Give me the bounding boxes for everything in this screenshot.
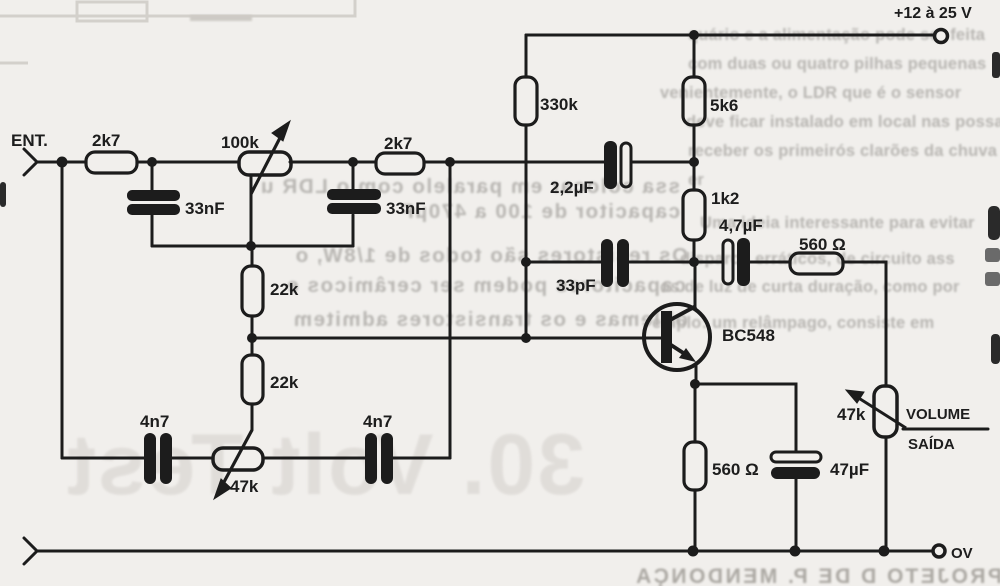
node base bus mid [521,333,531,343]
svg-text:+12 à 25 V: +12 à 25 V [894,5,972,22]
scan edge blobs [0,52,1000,364]
wire 33pF branch left [526,261,601,264]
node ground 47uF [790,546,801,557]
wire node to R 2k7 #1 [62,161,86,164]
svg-text:BC548: BC548 [722,326,775,345]
wire cap 4n7 #2 to x450 riser [392,457,450,460]
wire R 2k7 #1 to pot 100k [137,161,239,164]
node 33nF #2 tap [348,157,358,167]
wire input to node [37,161,86,164]
capacitor C4 33pF plates [601,239,629,287]
wire cap 4n7 #1 to pot 47k [172,457,213,460]
show-through bottom mirrored credit [634,565,1000,586]
wire collector node to R 1k2 [693,162,696,190]
wire base bus horizontal [252,337,661,340]
svg-text:PROJETO D DE P. MENDONÇA: PROJETO D DE P. MENDONÇA [634,565,1000,586]
resistor R6 22k [242,266,263,316]
wire treble bus y246 [152,245,353,248]
svg-text:47k: 47k [230,477,259,496]
svg-text:4n7: 4n7 [140,412,169,431]
wire pot 100k to R 2k7 #2 [290,161,376,164]
wire 33nF #2 top lead [352,162,355,190]
svg-text:47µF: 47µF [830,460,869,479]
terminal +V [935,30,948,43]
capacitor C6 4n7 plates [144,433,172,484]
svg-text:deve ficar instalado em local: deve ficar instalado em local nas possa [686,113,1000,131]
node collector top [689,157,699,167]
wire cap 4,7uF to R 560 horizontal [749,261,790,264]
node ground volume [879,546,890,557]
wire R 560 to volume riser [843,262,886,386]
show-through text left column [259,175,688,331]
faint smudge near top-left box [190,15,252,21]
wire R 330k top lead [525,35,528,77]
wire cap 47uF to ground rail [795,479,798,551]
svg-text:100k: 100k [221,133,259,152]
svg-text:560 Ω: 560 Ω [799,235,846,254]
potentiometer 47k bass arrow [214,430,252,499]
svg-text:560 Ω: 560 Ω [712,460,759,479]
svg-text:4n7: 4n7 [363,412,392,431]
node input junction [57,157,68,168]
capacitor C2 33nF plates [327,189,381,214]
wire 33nF #1 top lead [151,162,154,190]
potentiometer 47k volume body [874,386,897,437]
svg-text:5k6: 5k6 [710,96,738,115]
wire right vertical x450 [449,162,452,458]
wire base bus to R 22k #2 [251,338,254,355]
wire ground rail [37,550,933,553]
wire node y262 to cap 4,7uF [694,261,723,264]
capacitor C3 2,2uF electrolytic [604,141,631,189]
svg-text:2,2µF: 2,2µF [550,178,594,197]
wire R 1k2 to node y262 [693,240,696,262]
resistor R5 1k2 [683,190,705,240]
svg-text:oblemas e os transistores admi: oblemas e os transistores admitem [292,308,688,331]
svg-text:OV: OV [951,545,973,562]
show-through watermark headline (mirrored) [65,417,585,513]
wire R 330k bottom to base bus [525,125,528,338]
wire R 5k6 top lead [693,35,696,77]
svg-text:capacitor de 100 a 470µF: capacitor de 100 a 470µF [400,200,680,223]
svg-text:4,7µF: 4,7µF [719,216,763,235]
wire output line SAIDA [903,428,988,431]
node 33nF #1 tap [147,157,157,167]
svg-text:er: er [688,171,704,189]
node emitter [690,379,700,389]
node ground emitter resistor [688,546,699,557]
resistor R2 2k7 [376,153,424,174]
node right riser tap [445,157,455,167]
node supply 5k6 [689,30,699,40]
resistor R4 5k6 [683,77,705,125]
wire R 560 vertical to ground rail [694,490,697,551]
resistor R1 2k7 [86,152,137,173]
wire node y262 to transistor collector [694,262,697,309]
wire bass row left [62,457,144,460]
svg-text:33pF: 33pF [556,276,596,295]
wire R 2k7 #2 to cap 2,2uF [424,161,605,164]
potentiometer 100k body [239,152,291,175]
wire R 22k #2 to pot 47k wiper [251,404,254,430]
wire emitter node to cap 47uF [695,384,796,452]
capacitor C1 33nF plates [127,190,180,215]
svg-text:330k: 330k [540,95,578,114]
wire 33nF #2 bottom lead [352,215,355,246]
svg-text:VOLUME: VOLUME [906,406,970,423]
svg-text:22k: 22k [270,280,299,299]
input chevron ENT [24,149,37,175]
potentiometer 100k arrow [251,121,290,194]
svg-text:ENT.: ENT. [11,131,48,150]
capacitor C5 4,7uF electrolytic [723,238,750,286]
resistor R3 330k [515,77,537,125]
wire R 22k #1 to base bus [251,316,254,338]
svg-text:33nF: 33nF [386,199,426,218]
wire pot 100k wiper drop [250,177,253,246]
resistor R9 560 ohm vertical [684,442,706,490]
svg-text:33nF: 33nF [185,199,225,218]
svg-text:receber os primeirós clarões d: receber os primeirós clarões da chuva [688,142,998,160]
node 33pF left [521,257,531,267]
svg-text:2k7: 2k7 [92,131,120,150]
node collector y262 [689,257,699,267]
ground rail chevron [24,538,37,564]
svg-text:1k2: 1k2 [711,189,739,208]
wire node y246 to R 22k #1 [251,246,254,266]
terminal 0V [933,545,945,557]
potentiometer 47k bass body [213,448,263,470]
wire emitter node to R 560 vertical [694,384,697,442]
node 100k wiper bus [246,241,256,251]
wire top supply rail [526,34,941,37]
capacitor C7 4n7 plates [365,433,393,484]
wire volume pot to ground rail [885,437,888,551]
wire cap 2,2uF to node collector top [632,161,694,164]
svg-text:emplo: um relâmpago, consiste: emplo: um relâmpago, consiste em [652,314,934,332]
svg-text:SAÍDA: SAÍDA [908,436,955,453]
svg-text:com duas ou quatro pilhas pequ: com duas ou quatro pilhas pequenas [688,55,986,73]
potentiometer 47k volume arrow [846,390,906,428]
wire emitter lead down [695,366,698,384]
svg-text:22k: 22k [270,373,299,392]
node base bus left [247,333,257,343]
svg-text:os de luz de curta duração, co: os de luz de curta duração, como por [660,278,960,296]
capacitor C8 47uF electrolytic [771,452,821,479]
svg-text:2k7: 2k7 [384,134,412,153]
transistor Q1 BC548 [644,304,710,370]
resistor R7 22k [242,355,263,404]
resistor R8 560 ohm horizontal [790,253,843,274]
wire pot 47k to cap 4n7 #2 [263,457,365,460]
wire R 5k6 to collector node [693,125,696,162]
wire 33nF #1 bottom lead [151,215,154,246]
wire left vertical input branch [61,162,64,458]
wire 33pF to node y262 [629,261,694,264]
faint top-left figure box show-through [0,0,355,63]
svg-text:30. Volt Test: 30. Volt Test [65,417,585,513]
svg-text:47k: 47k [837,405,866,424]
show-through text right column [652,26,1000,332]
